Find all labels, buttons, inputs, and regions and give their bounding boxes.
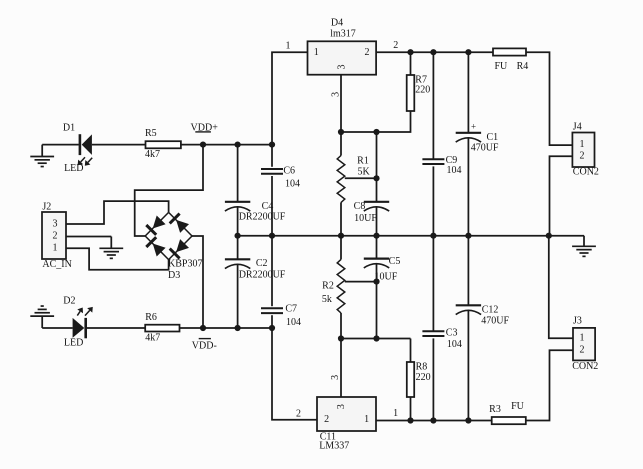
wire	[340, 313, 342, 339]
wire	[467, 311, 469, 421]
capacitor C8	[364, 201, 389, 203]
junction	[465, 233, 471, 239]
svg-text:2: 2	[580, 151, 585, 162]
svg-text:D3: D3	[168, 270, 180, 281]
capacitor C9	[422, 158, 444, 160]
wire	[271, 236, 273, 307]
wire	[237, 236, 239, 260]
wire	[271, 315, 273, 328]
svg-text:2: 2	[53, 231, 58, 242]
wire	[237, 208, 239, 236]
wire	[376, 132, 378, 202]
junction	[407, 417, 413, 423]
wire	[432, 52, 434, 159]
connector J3	[573, 328, 595, 361]
svg-text:C5: C5	[389, 256, 401, 267]
junction	[235, 142, 241, 148]
wire J2 pin1	[66, 248, 169, 269]
svg-text:LED: LED	[64, 337, 83, 348]
wire	[87, 327, 145, 329]
wire J4 pin2	[550, 156, 573, 236]
svg-text:104: 104	[286, 317, 301, 328]
capacitor C1	[456, 132, 481, 134]
wire	[181, 144, 203, 146]
svg-text:2: 2	[580, 344, 585, 355]
svg-text:KBP307: KBP307	[168, 258, 202, 269]
wire J3 pin1	[549, 236, 573, 339]
svg-text:1: 1	[53, 242, 58, 253]
svg-text:1: 1	[580, 332, 585, 343]
svg-text:10UF: 10UF	[354, 213, 377, 224]
svg-text:R4: R4	[517, 61, 529, 72]
diode D3 bottom-right	[176, 239, 189, 252]
junction	[338, 129, 344, 135]
LED D2	[73, 318, 85, 338]
svg-text:C4: C4	[262, 201, 274, 212]
svg-text:3: 3	[53, 218, 58, 229]
svg-text:2: 2	[296, 408, 301, 419]
wire	[42, 144, 79, 146]
svg-text:C6: C6	[283, 166, 295, 177]
wire bridge - output	[192, 236, 203, 328]
wire	[526, 52, 572, 145]
svg-text:220: 220	[415, 85, 430, 96]
capacitor C7	[261, 307, 283, 309]
junction	[373, 335, 379, 341]
junction	[269, 325, 275, 331]
wire	[467, 236, 469, 306]
wire	[271, 145, 273, 167]
svg-text:DR2200UF: DR2200UF	[239, 269, 286, 280]
svg-text:1: 1	[580, 139, 585, 150]
wire	[467, 52, 469, 133]
junction	[430, 233, 436, 239]
wire	[467, 139, 469, 236]
junction	[200, 325, 206, 331]
svg-text:FU: FU	[511, 401, 525, 412]
svg-text:J3: J3	[573, 316, 582, 327]
wire	[376, 208, 378, 236]
wire LM317 pin2	[376, 51, 493, 53]
wire J2 pin2	[66, 236, 111, 238]
wire LM317 pin1	[272, 52, 308, 144]
wire VDD- rail	[180, 327, 273, 329]
wire	[340, 203, 342, 236]
junction	[430, 417, 436, 423]
svg-text:D1: D1	[63, 122, 75, 133]
wire	[341, 338, 411, 340]
diode D3 top-left	[153, 216, 166, 229]
potentiometer R2	[337, 259, 345, 313]
svg-text:DR2200UF: DR2200UF	[239, 211, 286, 222]
svg-text:1: 1	[286, 40, 291, 51]
svg-text:2: 2	[365, 47, 370, 58]
svg-text:C3: C3	[446, 327, 458, 338]
resistor R8	[407, 362, 414, 397]
wire	[272, 328, 317, 420]
svg-text:CON2: CON2	[572, 361, 598, 372]
wire VDD+ rail	[203, 144, 272, 146]
svg-text:lm317: lm317	[330, 28, 356, 39]
svg-text:104: 104	[285, 179, 300, 190]
connector J2	[42, 212, 66, 259]
wire R1 wiper	[345, 177, 377, 179]
svg-text:R2: R2	[322, 281, 334, 292]
svg-text:5k: 5k	[322, 294, 332, 305]
capacitor C12	[456, 304, 481, 306]
junction	[407, 49, 413, 55]
junction	[200, 142, 206, 148]
svg-text:C12: C12	[482, 304, 499, 315]
svg-text:VDD-: VDD-	[192, 340, 217, 351]
junction	[235, 325, 241, 331]
wire	[410, 52, 412, 75]
svg-text:LED: LED	[64, 163, 83, 174]
wire	[271, 176, 273, 236]
svg-text:CON2: CON2	[573, 166, 599, 177]
svg-text:D4: D4	[331, 18, 343, 29]
wire	[92, 144, 146, 146]
svg-text:1: 1	[364, 414, 369, 425]
capacitor C3	[422, 330, 444, 332]
diode D3 bottom-left	[153, 244, 166, 257]
diode D3 top-right	[176, 220, 189, 233]
wire	[432, 338, 434, 420]
wire bridge + output	[135, 145, 203, 236]
svg-text:C1: C1	[487, 132, 499, 143]
svg-text:2: 2	[393, 40, 398, 51]
junction	[430, 49, 436, 55]
junction	[465, 417, 471, 423]
ground (D2)	[41, 316, 43, 328]
wire	[526, 350, 573, 420]
wire	[432, 236, 434, 332]
junction	[338, 335, 344, 341]
svg-text:+: +	[471, 121, 476, 131]
svg-text:104: 104	[447, 339, 462, 350]
regulator U: C11 LM337	[317, 397, 376, 431]
svg-text:R5: R5	[145, 128, 157, 139]
capacitor C4	[225, 201, 250, 203]
svg-text:3: 3	[336, 65, 347, 70]
wire LM317 pin3	[340, 75, 342, 132]
svg-text:R1: R1	[357, 156, 369, 167]
bridge rectifier D3 body	[145, 212, 192, 259]
svg-text:5K: 5K	[357, 167, 370, 178]
wire	[237, 145, 239, 202]
svg-text:R6: R6	[145, 312, 157, 323]
wire J2 pin3	[66, 201, 169, 224]
svg-text:C2: C2	[256, 258, 268, 269]
svg-text:J4: J4	[573, 122, 582, 133]
svg-text:2: 2	[324, 414, 329, 425]
wire mid rail	[238, 235, 584, 237]
svg-text:4k7: 4k7	[145, 332, 160, 343]
ground (J2 pin2)	[110, 237, 112, 249]
LED D1	[79, 134, 82, 155]
svg-text:3: 3	[330, 92, 341, 97]
fuse R4	[493, 48, 526, 55]
wire	[376, 236, 378, 259]
ground (mid rail)	[583, 236, 585, 247]
svg-text:C7: C7	[285, 304, 297, 315]
wire	[237, 265, 239, 328]
svg-text:1: 1	[393, 408, 398, 419]
wire	[410, 339, 412, 363]
svg-text:J2: J2	[42, 201, 51, 212]
svg-text:C8: C8	[354, 201, 366, 212]
resistor R5	[146, 141, 181, 148]
junction	[373, 279, 379, 285]
junction	[465, 49, 471, 55]
svg-text:R3: R3	[489, 404, 501, 415]
wire	[341, 111, 411, 132]
wire	[376, 264, 378, 338]
capacitor C6	[261, 168, 283, 170]
fuse R3	[492, 417, 526, 424]
wire	[42, 327, 72, 329]
svg-text:1: 1	[314, 47, 319, 58]
wire bottom rail	[376, 420, 492, 422]
svg-text:104: 104	[447, 165, 462, 176]
junction	[373, 129, 379, 135]
svg-text:D2: D2	[63, 295, 75, 306]
junction	[373, 175, 379, 181]
wire	[410, 397, 412, 421]
connector J4	[572, 133, 594, 168]
junction	[269, 142, 275, 148]
wire R2 wiper	[345, 281, 377, 283]
svg-text:LM337: LM337	[319, 440, 349, 451]
svg-text:470UF: 470UF	[481, 315, 509, 326]
capacitor C2	[225, 258, 250, 260]
svg-text:470UF: 470UF	[471, 142, 499, 153]
wire	[340, 236, 342, 260]
svg-text:3: 3	[336, 404, 347, 409]
resistor R7	[407, 75, 415, 111]
ground (D1)	[41, 145, 43, 157]
wire	[432, 166, 434, 235]
wire LM337 pin3	[340, 339, 342, 398]
junction	[338, 233, 344, 239]
capacitor C5	[364, 258, 389, 260]
regulator U: D4 LM317	[308, 41, 377, 74]
wire	[340, 132, 342, 156]
svg-text:3: 3	[330, 375, 341, 380]
svg-text:4k7: 4k7	[145, 149, 160, 160]
svg-text:FU: FU	[495, 61, 509, 72]
junction	[373, 233, 379, 239]
potentiometer R1	[337, 156, 345, 203]
resistor R6	[145, 325, 179, 332]
junction	[235, 233, 241, 239]
svg-text:220: 220	[416, 372, 431, 383]
junction	[546, 233, 552, 239]
svg-text:AC_IN: AC_IN	[42, 259, 71, 270]
junction	[269, 233, 275, 239]
